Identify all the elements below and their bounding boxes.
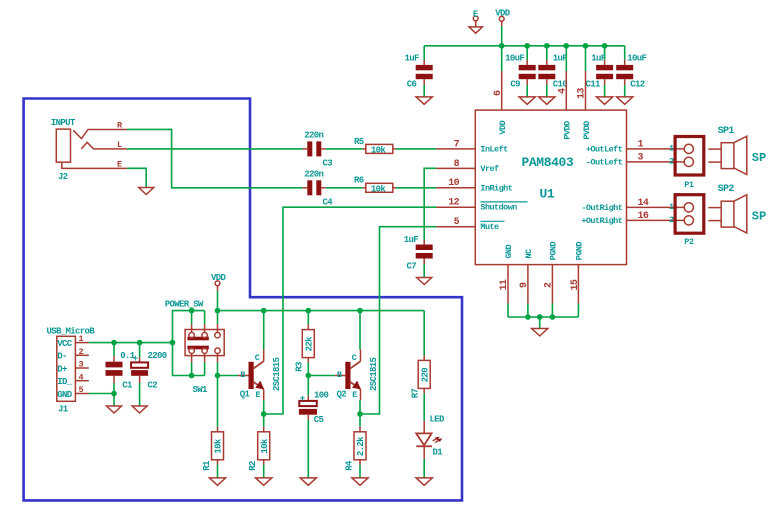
svg-text:22k: 22k bbox=[304, 336, 314, 352]
ground bbox=[519, 97, 535, 104]
svg-text:B: B bbox=[337, 370, 342, 380]
SW1 pin circles x=204.6 bbox=[202, 333, 207, 338]
pin 6 stub bbox=[501, 71, 503, 110]
capacitor C2 (polarized) bbox=[139, 343, 141, 358]
gnd bus junction bbox=[550, 314, 556, 320]
wire rail to R7 bbox=[423, 311, 425, 356]
svg-text:12: 12 bbox=[448, 198, 459, 209]
svg-text:220n: 220n bbox=[304, 131, 323, 141]
ground bbox=[256, 478, 272, 485]
resistor R1 body bbox=[212, 432, 224, 460]
power flag VDD (switch) bbox=[215, 281, 220, 286]
SW1 pin circles x=217.5 bbox=[215, 333, 220, 338]
wire pin 15 to gnd bus bbox=[577, 304, 579, 317]
svg-text:PAM8403: PAM8403 bbox=[522, 155, 574, 170]
U1 pin 15 stub bbox=[577, 265, 579, 304]
svg-text:2SC1815: 2SC1815 bbox=[272, 357, 282, 391]
svg-text:InLeft: InLeft bbox=[480, 144, 508, 154]
svg-text:C11: C11 bbox=[586, 80, 602, 90]
wire pin 11 to gnd bus bbox=[507, 304, 509, 317]
pin 4 stub bbox=[565, 71, 567, 110]
U1 pin 3 wire to connector bbox=[627, 161, 684, 163]
Q1 base junction bbox=[215, 373, 221, 379]
wire R5 to pin7 bbox=[396, 148, 437, 150]
wire VDD top rail bbox=[501, 26, 503, 71]
wire Mute pin5 to Q2 emitter bbox=[360, 227, 436, 414]
capacitor C4 bbox=[302, 187, 307, 189]
svg-text:C6: C6 bbox=[407, 80, 417, 90]
svg-text:E: E bbox=[352, 390, 357, 400]
pin 13 stub bbox=[585, 71, 587, 110]
wire R7 to LED bbox=[423, 393, 425, 420]
VCC junction bbox=[170, 340, 176, 346]
svg-text:2: 2 bbox=[79, 347, 84, 357]
svg-text:3: 3 bbox=[79, 360, 84, 370]
capacitor C12 plates bbox=[616, 65, 633, 70]
svg-text:Mute: Mute bbox=[480, 222, 499, 232]
VDD junction bbox=[499, 43, 505, 49]
svg-text:D1: D1 bbox=[433, 448, 444, 458]
U1 pin 9 stub bbox=[527, 265, 529, 304]
wire base node to Q1 bbox=[218, 375, 239, 377]
svg-text:10: 10 bbox=[448, 178, 459, 189]
svg-text:D+: D+ bbox=[57, 364, 67, 374]
wire C12 to ground bbox=[624, 79, 626, 85]
wire Shutdown pin12 to Q1 emitter bbox=[264, 207, 437, 414]
capacitor C6 plates bbox=[416, 65, 433, 70]
svg-text:R1: R1 bbox=[202, 460, 212, 471]
svg-text:SP2: SP2 bbox=[718, 184, 735, 195]
svg-text:9: 9 bbox=[519, 282, 530, 288]
svg-text:3: 3 bbox=[638, 152, 644, 163]
svg-text:C9: C9 bbox=[510, 80, 520, 90]
svg-text:+: + bbox=[133, 354, 138, 364]
svg-text:P2: P2 bbox=[684, 237, 694, 247]
C10 junction bbox=[544, 43, 550, 49]
svg-text:VDD: VDD bbox=[495, 9, 511, 19]
svg-text:13: 13 bbox=[577, 88, 588, 99]
wire C11 to ground bbox=[604, 79, 606, 85]
gnd stem junction bbox=[537, 314, 543, 320]
Q1 emitter junction bbox=[261, 411, 267, 417]
svg-text:VCC: VCC bbox=[57, 339, 73, 349]
svg-text:R7: R7 bbox=[411, 389, 421, 399]
wire Q2 emitter node bbox=[359, 400, 361, 427]
svg-text:R2: R2 bbox=[248, 461, 258, 471]
wire Q1 collector to rail bbox=[263, 311, 265, 350]
wire SW col2 top bbox=[204, 311, 206, 325]
connector J1 USB_MicroB body bbox=[57, 336, 76, 401]
ground bbox=[209, 478, 225, 485]
wire C10 to ground bbox=[546, 79, 548, 85]
wire base node down to R1 bbox=[217, 376, 219, 427]
LED D1 bbox=[423, 421, 425, 434]
op-amp U1 PAM8403 body bbox=[475, 110, 626, 265]
wire R4 to ground bbox=[359, 465, 361, 478]
svg-text:1: 1 bbox=[638, 139, 644, 150]
J2 ring contact L bbox=[81, 142, 127, 149]
resistor R1 bbox=[217, 427, 219, 432]
svg-text:6: 6 bbox=[493, 90, 504, 96]
svg-text:PVDD: PVDD bbox=[582, 121, 592, 140]
power flag VDD top bbox=[499, 16, 504, 21]
wire C3 to R5 bbox=[326, 148, 363, 150]
svg-text:INPUT: INPUT bbox=[51, 118, 76, 128]
svg-text:220n: 220n bbox=[304, 170, 323, 180]
svg-text:C12: C12 bbox=[630, 80, 645, 90]
wire base node to Q2 bbox=[308, 375, 335, 377]
svg-text:SP: SP bbox=[752, 210, 766, 224]
svg-text:P1: P1 bbox=[684, 180, 694, 190]
resistor R3 body bbox=[302, 330, 314, 358]
ground bbox=[416, 478, 432, 485]
svg-text:GND: GND bbox=[57, 390, 73, 400]
wire SW col2 bottom bbox=[204, 362, 206, 375]
svg-text:8: 8 bbox=[454, 159, 460, 170]
U1 pin 14 wire to connector bbox=[627, 206, 684, 208]
U1 pin 10 stub bbox=[436, 187, 475, 189]
capacitor C7 bbox=[423, 240, 425, 245]
SW bottom junction bbox=[189, 373, 195, 379]
resistor R3 bbox=[307, 325, 309, 330]
svg-text:10uF: 10uF bbox=[627, 54, 646, 64]
svg-text:-OutLeft: -OutLeft bbox=[586, 157, 623, 167]
ground bbox=[132, 406, 147, 413]
C2/VCC junction bbox=[137, 340, 143, 346]
svg-text:C7: C7 bbox=[407, 262, 417, 272]
wire LED to ground bbox=[423, 459, 425, 478]
transistor Q1 2SC1815 bbox=[249, 362, 254, 389]
ground bbox=[539, 97, 555, 104]
capacitor C5 (polarized) bbox=[307, 396, 309, 401]
svg-text:C1: C1 bbox=[122, 381, 133, 391]
R3 junction bbox=[305, 308, 311, 314]
resistor R2 body bbox=[258, 432, 270, 460]
svg-text:Q1: Q1 bbox=[240, 389, 251, 399]
svg-text:ID_: ID_ bbox=[57, 377, 73, 387]
SW1 contact bar top bbox=[187, 337, 208, 341]
J1 pin 1 VCC bbox=[75, 342, 88, 344]
svg-text:5: 5 bbox=[454, 217, 460, 228]
speaker SP2 bbox=[708, 207, 721, 209]
svg-text:U1: U1 bbox=[540, 187, 555, 202]
wire gnd stem bbox=[539, 317, 541, 329]
svg-text:B: B bbox=[240, 370, 245, 380]
svg-text:+: + bbox=[300, 394, 305, 404]
U1 pin 7 stub bbox=[436, 148, 475, 150]
svg-text:5: 5 bbox=[79, 385, 84, 395]
svg-text:4: 4 bbox=[79, 372, 84, 382]
wire to C12 bbox=[624, 46, 626, 60]
pin13 junction bbox=[583, 43, 589, 49]
svg-text:16: 16 bbox=[638, 211, 649, 222]
capacitor C10 plates bbox=[538, 65, 555, 70]
J1 pin 3 D+ bbox=[75, 367, 88, 369]
svg-text:220: 220 bbox=[420, 368, 430, 383]
U1 pin 1 wire to connector bbox=[627, 148, 684, 150]
svg-text:2: 2 bbox=[669, 157, 674, 167]
resistor R6 bbox=[363, 187, 366, 189]
svg-text:C: C bbox=[255, 353, 260, 363]
wire C9 to ground bbox=[526, 79, 528, 85]
wire pin 2 to gnd bus bbox=[551, 304, 553, 317]
SW col1 top junction bbox=[189, 308, 195, 314]
svg-text:14: 14 bbox=[638, 198, 649, 209]
svg-text:1: 1 bbox=[79, 334, 84, 344]
svg-text:100: 100 bbox=[314, 391, 329, 401]
connector J2 body bbox=[56, 129, 70, 162]
svg-text:C2: C2 bbox=[148, 381, 158, 391]
Q1 collector junction bbox=[261, 308, 267, 314]
capacitor C3 bbox=[302, 148, 307, 150]
svg-text:R5: R5 bbox=[354, 137, 364, 147]
svg-text:2200: 2200 bbox=[148, 351, 167, 361]
SW1 pin circles x=191.6 bbox=[189, 333, 194, 338]
svg-text:PVDD: PVDD bbox=[563, 121, 573, 140]
capacitor C9 plates bbox=[519, 65, 536, 70]
Q2 collector junction bbox=[357, 308, 363, 314]
wire Q1 emitter node bbox=[263, 400, 265, 427]
svg-text:NC: NC bbox=[524, 249, 534, 259]
wire R1 to ground bbox=[217, 465, 219, 478]
wire rail to pin 13 bbox=[585, 46, 587, 71]
Q2 emitter junction bbox=[357, 411, 363, 417]
wire L to C3 bbox=[127, 148, 302, 150]
svg-text:2: 2 bbox=[669, 215, 674, 225]
C1/VCC junction bbox=[111, 340, 117, 346]
svg-text:E: E bbox=[117, 159, 122, 169]
svg-text:10k: 10k bbox=[371, 185, 387, 195]
wire GND bbox=[89, 393, 114, 395]
ground bbox=[416, 97, 432, 104]
svg-text:InRight: InRight bbox=[480, 183, 512, 193]
svg-text:1: 1 bbox=[669, 202, 674, 212]
svg-text:+OutRight: +OutRight bbox=[581, 216, 622, 226]
wire to C6 bbox=[423, 46, 425, 60]
wire to C11 bbox=[604, 46, 606, 60]
SW1 contact bar bottom bbox=[187, 346, 208, 350]
svg-text:2.2k: 2.2k bbox=[356, 436, 366, 456]
svg-text:2SC1815: 2SC1815 bbox=[369, 357, 379, 391]
wire R2 to ground bbox=[263, 465, 265, 478]
connector P1 bbox=[675, 137, 704, 176]
J1 pin 4 ID_ bbox=[75, 380, 88, 382]
ground bbox=[139, 188, 154, 195]
wire VDD rail right segment bbox=[218, 310, 425, 312]
J2 sleeve contact E bbox=[62, 162, 127, 168]
svg-text:1uF: 1uF bbox=[404, 235, 419, 245]
wire C5 to ground bbox=[307, 420, 309, 478]
wire VDD rail left segment bbox=[173, 311, 205, 376]
ground bbox=[532, 329, 548, 336]
wire U1 ground bus bbox=[508, 316, 578, 318]
svg-text:10uF: 10uF bbox=[505, 54, 524, 64]
wire C4 to R6 bbox=[326, 187, 363, 189]
gnd bus junction bbox=[525, 314, 531, 320]
svg-text:E: E bbox=[256, 390, 261, 400]
svg-text:D-: D- bbox=[57, 352, 67, 362]
wire SW col1 bottom bbox=[191, 362, 193, 375]
svg-text:1: 1 bbox=[669, 144, 674, 154]
wire VDD to switch bbox=[217, 291, 219, 324]
resistor R4 body bbox=[354, 432, 366, 460]
wire R to C4 bbox=[127, 129, 302, 187]
switch SW1 POWER_SW body bbox=[185, 330, 224, 356]
U1 pin 8 stub bbox=[436, 167, 475, 169]
svg-text:1uF: 1uF bbox=[591, 54, 606, 64]
Q2 base junction bbox=[305, 373, 311, 379]
svg-text:-OutRight: -OutRight bbox=[581, 203, 622, 213]
svg-text:C: C bbox=[352, 353, 357, 363]
svg-text:SP1: SP1 bbox=[718, 126, 735, 137]
VDD rail junction bbox=[215, 308, 221, 314]
wire R3 to Q2 base node bbox=[307, 363, 309, 396]
svg-text:R4: R4 bbox=[344, 460, 354, 471]
svg-text:J1: J1 bbox=[58, 405, 69, 415]
ground bbox=[417, 278, 432, 285]
C11 junction bbox=[602, 43, 608, 49]
wire rail to R3 bbox=[307, 311, 309, 325]
wire to C10 bbox=[546, 46, 548, 60]
U1 pin 11 stub bbox=[507, 265, 509, 304]
J1 pin 2 D- bbox=[75, 354, 88, 356]
svg-text:7: 7 bbox=[454, 139, 460, 150]
svg-text:15: 15 bbox=[570, 279, 581, 290]
svg-text:SW1: SW1 bbox=[193, 385, 209, 395]
svg-text:VDD: VDD bbox=[211, 273, 227, 283]
ground bbox=[107, 406, 122, 413]
svg-text:GND: GND bbox=[504, 244, 514, 258]
resistor R7 bbox=[423, 355, 425, 360]
ground bbox=[617, 97, 633, 104]
U1 pin 2 stub bbox=[551, 265, 553, 304]
J2 tip contact R bbox=[73, 129, 127, 138]
svg-text:LED: LED bbox=[430, 415, 446, 425]
wire E to ground bbox=[127, 168, 146, 187]
J1 pin 5 GND bbox=[75, 393, 88, 395]
svg-text:USB_MicroB: USB_MicroB bbox=[47, 326, 96, 336]
wire C7 to ground bbox=[423, 264, 425, 278]
wire to C9 bbox=[526, 46, 528, 60]
wire Vref to C7 bbox=[424, 168, 436, 239]
capacitor C1 bbox=[113, 343, 115, 357]
speaker SP1 bbox=[708, 148, 721, 150]
LED light arrows bbox=[433, 438, 439, 441]
pin4 junction bbox=[563, 43, 569, 49]
svg-text:POWER_SW: POWER_SW bbox=[165, 300, 204, 310]
wire SW col3 bottom to base node bbox=[217, 362, 219, 375]
U1 pin 12 stub bbox=[436, 206, 475, 208]
transistor Q2 2SC1815 bbox=[345, 362, 350, 389]
U1 pin 16 wire to connector bbox=[627, 219, 684, 221]
ground bbox=[300, 478, 316, 485]
U1 pin 5 stub bbox=[436, 226, 475, 228]
svg-text:PGND: PGND bbox=[549, 242, 559, 261]
resistor R5 bbox=[363, 148, 366, 150]
wire SW col1 top bbox=[191, 311, 193, 325]
wire pin 9 to gnd bus bbox=[527, 304, 529, 317]
svg-text:R3: R3 bbox=[295, 362, 305, 372]
svg-text:4: 4 bbox=[557, 88, 568, 94]
svg-text:C5: C5 bbox=[314, 415, 324, 425]
svg-text:C4: C4 bbox=[323, 197, 334, 207]
svg-text:1uF: 1uF bbox=[405, 54, 420, 64]
wire R6 to pin10 bbox=[396, 187, 437, 189]
C1/GND junction bbox=[111, 391, 117, 397]
svg-text:C10: C10 bbox=[553, 80, 568, 90]
ground bbox=[352, 478, 368, 485]
svg-text:C3: C3 bbox=[323, 158, 333, 168]
svg-text:2: 2 bbox=[543, 282, 554, 288]
svg-text:PGND: PGND bbox=[575, 242, 585, 261]
svg-text:J2: J2 bbox=[58, 172, 68, 182]
svg-text:VDD: VDD bbox=[498, 120, 508, 134]
svg-text:10k: 10k bbox=[371, 146, 387, 156]
wire VCC rail bbox=[89, 342, 173, 344]
resistor R2 bbox=[263, 427, 265, 432]
svg-text:10k: 10k bbox=[260, 438, 270, 454]
svg-text:1uF: 1uF bbox=[553, 54, 568, 64]
ground bbox=[597, 97, 613, 104]
wire rail to pin 4 bbox=[565, 46, 567, 71]
svg-text:11: 11 bbox=[499, 279, 510, 290]
svg-text:+OutLeft: +OutLeft bbox=[586, 144, 623, 154]
svg-text:Vref: Vref bbox=[480, 164, 499, 174]
wire Q2 collector to rail bbox=[359, 311, 361, 350]
C9 junction bbox=[524, 43, 530, 49]
svg-text:L: L bbox=[117, 140, 122, 150]
svg-text:10k: 10k bbox=[214, 438, 224, 454]
blue sheet border bbox=[24, 99, 462, 501]
svg-text:SP: SP bbox=[752, 151, 766, 165]
capacitor C11 plates bbox=[596, 65, 613, 70]
svg-text:Shutdown: Shutdown bbox=[480, 203, 517, 213]
wire C6 to ground bbox=[423, 79, 425, 85]
connector P2 bbox=[675, 195, 704, 234]
resistor R7 body bbox=[418, 360, 430, 388]
svg-text:R6: R6 bbox=[354, 176, 364, 186]
power flag E bbox=[473, 16, 478, 21]
resistor R4 bbox=[359, 427, 361, 432]
svg-text:Q2: Q2 bbox=[337, 389, 347, 399]
